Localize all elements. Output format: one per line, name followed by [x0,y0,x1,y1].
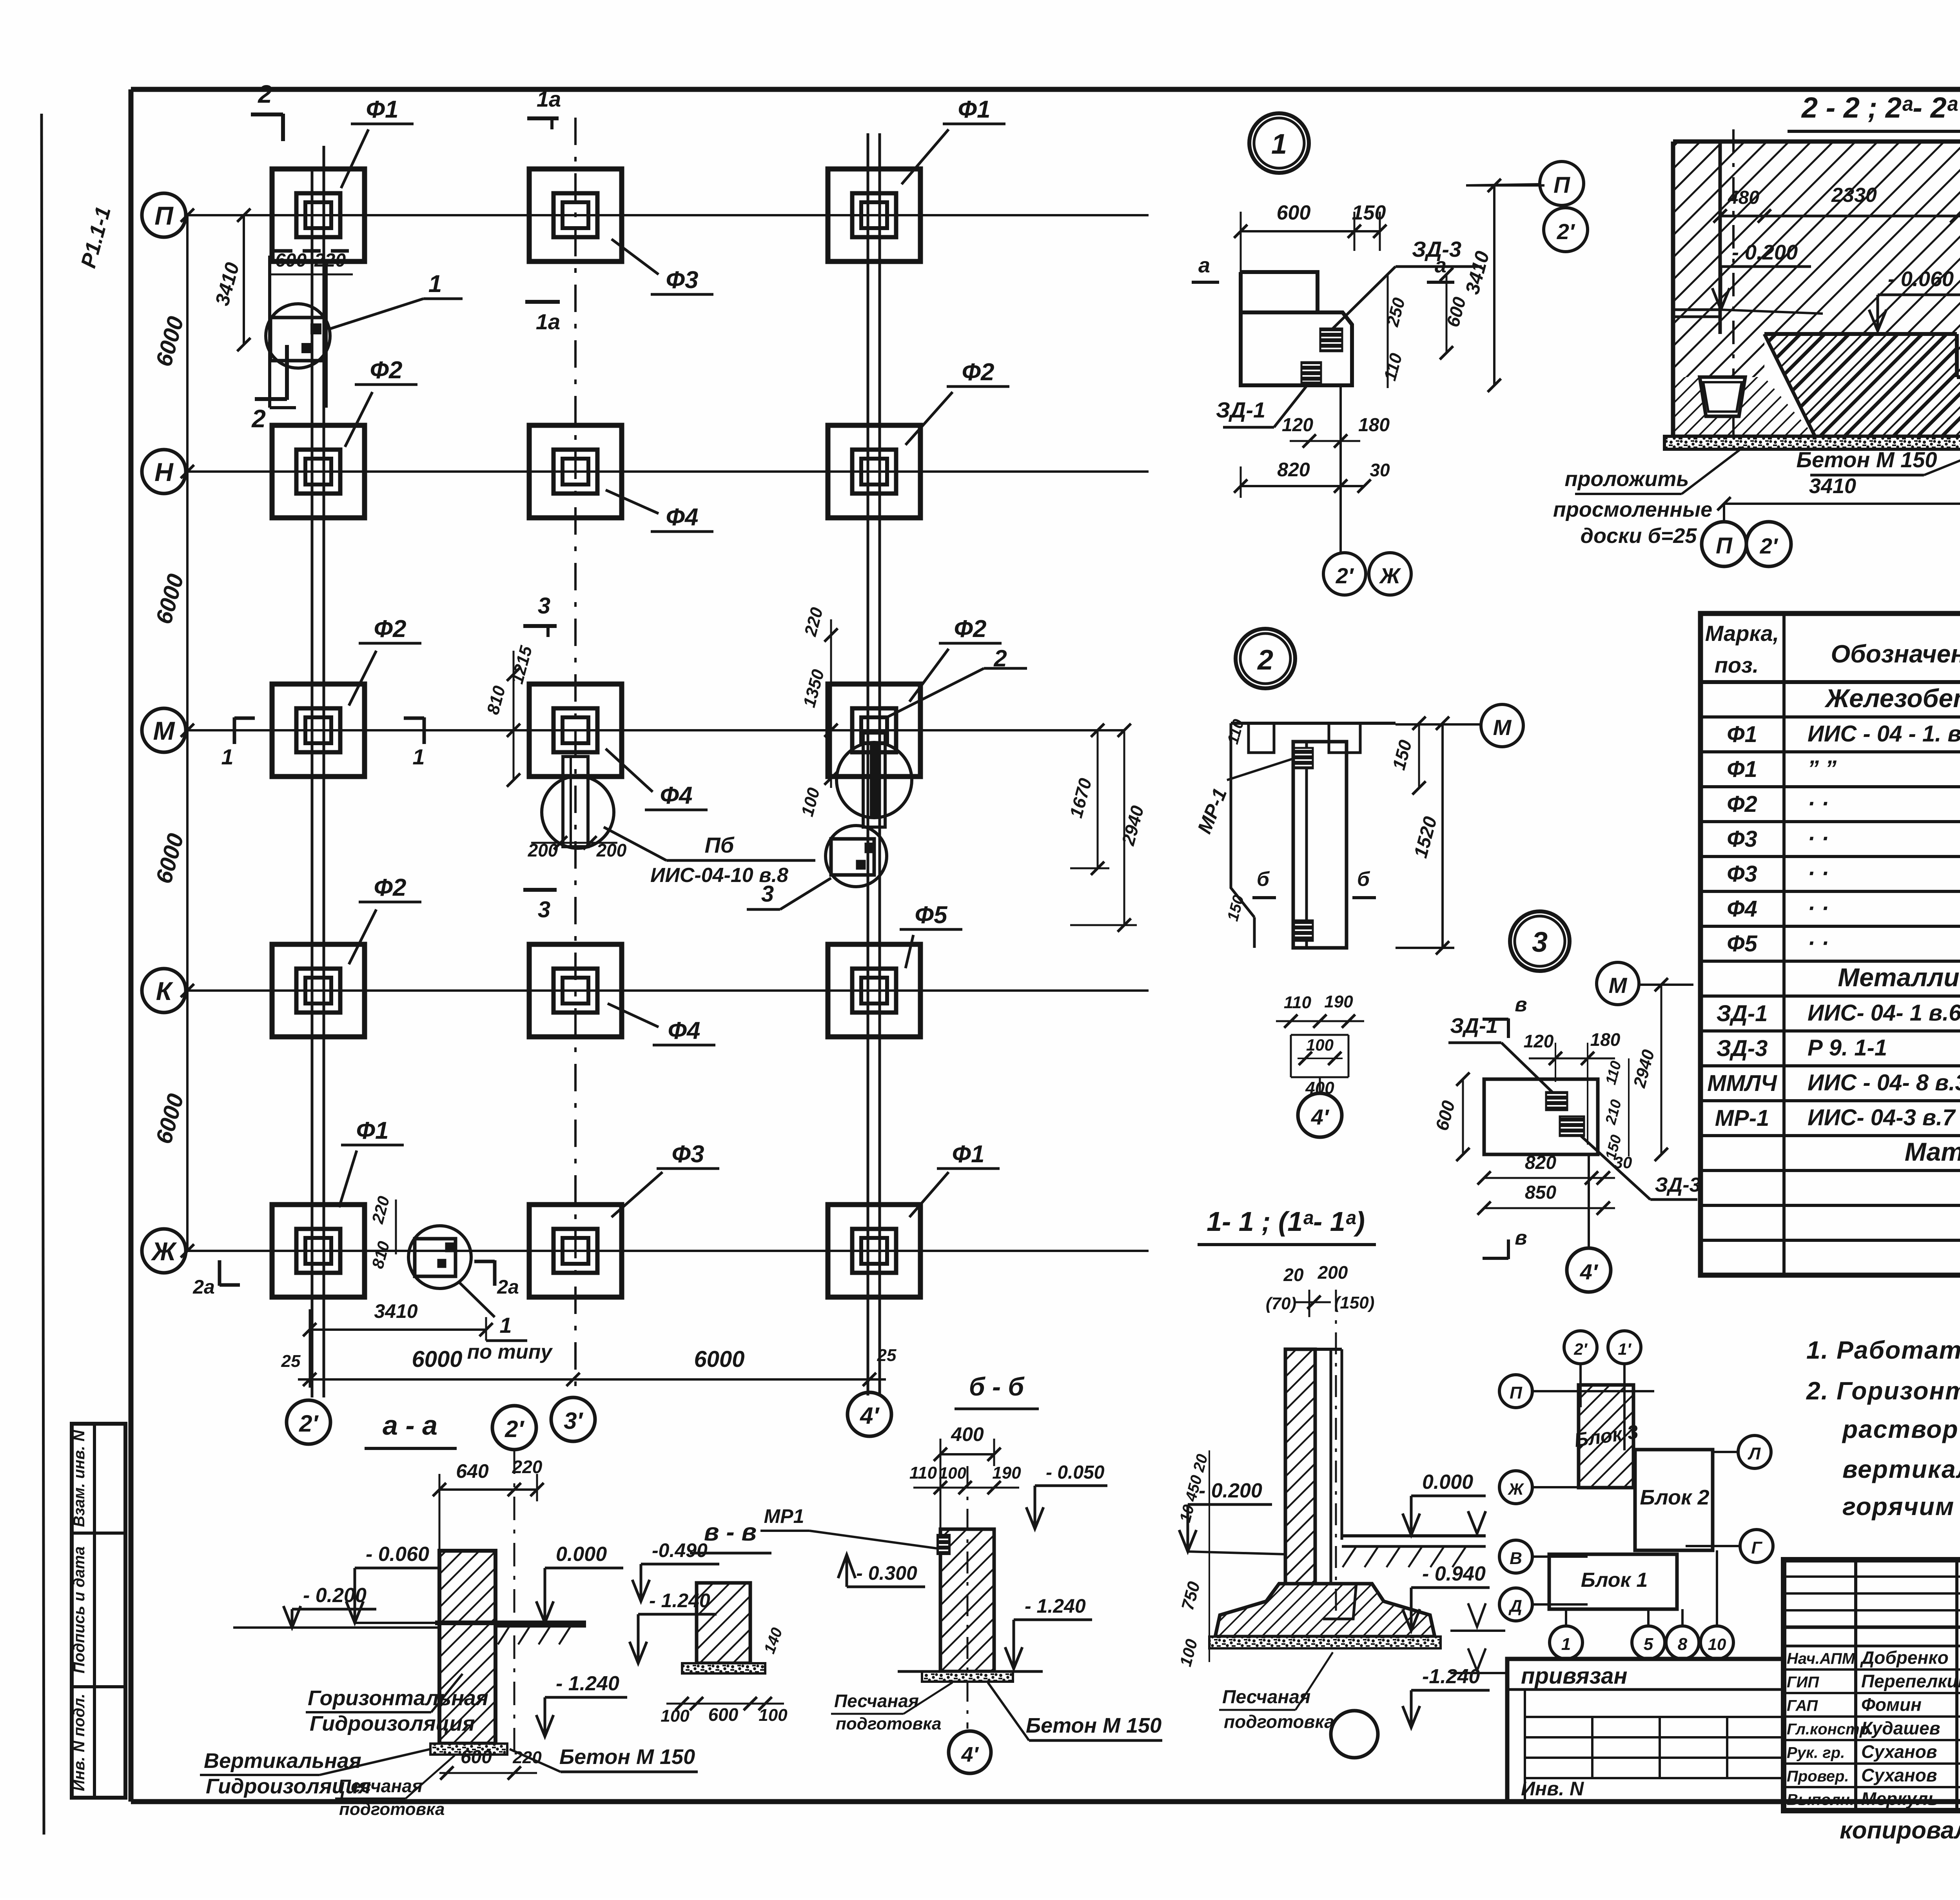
svg-text:Ф1: Ф1 [952,1141,985,1168]
detail 2 pad МР-1 bottom [1294,920,1313,941]
svg-text:- 0.300: - 0.300 [856,1562,917,1584]
section mark 2а left [218,1260,221,1286]
svg-text:10: 10 [1708,1635,1726,1653]
svg-text:3: 3 [538,897,550,922]
svg-text:- 0.200: - 0.200 [303,1584,367,1607]
leader ЗД-3 [1333,267,1396,328]
detail circle big on М-4' [837,742,912,818]
svg-text:0.000: 0.000 [1422,1471,1473,1494]
1-1 glass pocket [1319,1584,1356,1619]
axis row line Н [185,470,1149,473]
svg-text:поз.: поз. [1715,653,1759,677]
detail 1 dim 600 right [1446,274,1448,353]
footing Ф at row Ж col 2' [272,1205,365,1297]
svg-text:Кудашев: Кудашев [1861,1718,1940,1738]
svg-text:ИИС - 04- 8 в.3: ИИС - 04- 8 в.3 [1808,1070,1960,1095]
svg-text:4′: 4′ [860,1403,880,1429]
svg-text:1- 1 ; (1ᵃ- 1ᵃ): 1- 1 ; (1ᵃ- 1ᵃ) [1207,1206,1365,1237]
svg-text:Л: Л [1748,1444,1761,1463]
svg-text:8: 8 [1678,1635,1688,1654]
scheme axis 10 bottom [1700,1626,1733,1659]
rotated dims 220 1350 100 left of М-4' [830,619,832,788]
svg-text:1: 1 [221,744,233,769]
label Ф2 row Н col 4' [906,392,953,445]
axis row line М [185,729,1125,731]
detail 3 axis circle М [1597,962,1639,1005]
svg-text:Ф4: Ф4 [666,504,699,531]
label Ф1 row П col 4' [902,129,949,184]
svg-text:2: 2 [1257,644,1273,676]
svg-text:6000: 6000 [694,1347,744,1372]
label Ф3 row Ж col 3' [612,1172,662,1217]
svg-text:б: б [1357,868,1370,891]
section mark 3 upper [546,625,550,637]
svg-text:ИИС - 04 - 1. в.6: ИИС - 04 - 1. в.6 [1808,721,1960,746]
level -1.240 1-1 [1411,1689,1490,1692]
level -0.060 а-а [355,1567,439,1570]
svg-text:Инв. N: Инв. N [1521,1778,1584,1800]
svg-text:2 - 2 ; 2ᵃ- 2ᵃ: 2 - 2 ; 2ᵃ- 2ᵃ [1801,91,1958,124]
svg-text:Ф1: Ф1 [958,96,991,123]
parts table frame [1700,613,1960,1275]
svg-text:Перепелкин: Перепелкин [1861,1671,1960,1691]
circles П 2' below 2-2 [1723,504,1725,522]
label Ф1 row Ж col 4' [909,1172,949,1217]
svg-text:П: П [1716,533,1733,559]
detail 2 axis line to М circle [1396,723,1480,726]
label Ф2 row К col 2' [349,909,376,964]
svg-text:В: В [1510,1549,1522,1568]
svg-text:П: П [1510,1383,1523,1403]
section 2-2 break joint left [1673,309,1720,311]
б-б column hatched [940,1529,994,1671]
svg-text:Н: Н [154,457,174,486]
footing Ф at row Ж col 4' [828,1205,920,1297]
label Ф1 row П col 2' [341,129,368,188]
scheme axis В [1499,1540,1532,1573]
level -0.200 а-а [292,1608,376,1611]
detail 3 leader ЗД-3 [1580,1135,1650,1200]
в-в dims 100 600 100 [666,1703,784,1705]
svg-text:2′: 2′ [1336,563,1354,588]
svg-text:Рук. гр.: Рук. гр. [1787,1744,1845,1762]
svg-text:5: 5 [1644,1635,1653,1654]
svg-text:1: 1 [499,1313,512,1337]
detail 1 section marks а-а [1192,281,1219,284]
svg-text:Обозначение: Обозначение [1831,640,1960,668]
б-б centre line [967,1466,969,1729]
table row empty [1700,1239,1960,1242]
svg-text:Суханов: Суханов [1861,1765,1937,1786]
1-1 bottom circle [1331,1711,1378,1758]
svg-text:Ф2: Ф2 [374,874,407,901]
svg-text:2: 2 [251,405,266,433]
footing Ф at row К col 3' [529,944,622,1037]
axis circle Н [142,450,186,494]
scheme axis 1' top [1608,1331,1641,1364]
footing Ф at row П col 2' [272,169,365,261]
scheme axis Д [1499,1588,1532,1621]
svg-text:Песчаная: Песчаная [834,1691,919,1711]
svg-text:2′: 2′ [1557,219,1575,244]
sheet frame border [131,87,1960,92]
svg-text:-1.240: -1.240 [1422,1665,1480,1688]
svg-text:б - б: б - б [969,1372,1025,1401]
svg-text:доски б=25: доски б=25 [1581,524,1697,548]
svg-text:Выполн.: Выполн. [1787,1791,1854,1809]
svg-text:подготовка: подготовка [836,1714,942,1733]
1-1 centre line [1335,1290,1337,1615]
axis column 3' centre line [574,118,577,1397]
detail 2 dim 1520 right [1441,723,1444,948]
level -0.200 [1721,265,1811,268]
svg-text:820: 820 [1277,459,1310,481]
б-б МР1 pad [938,1535,949,1554]
level -1.240 б-б [1014,1619,1092,1621]
svg-text:640: 640 [456,1460,489,1482]
label Ф4 row К col 3' [608,1004,659,1027]
svg-text:25: 25 [877,1346,897,1365]
svg-text:Вертикальная: Вертикальная [204,1749,361,1773]
section 2-2 foundation body chain-hatched [1764,334,1960,436]
scheme axis 2' top [1564,1331,1597,1364]
dim 220 810 near Ж col2' [395,1200,397,1254]
svg-text:ГИП: ГИП [1787,1674,1819,1691]
scheme axis 8 bottom [1666,1626,1699,1659]
svg-text:600: 600 [708,1704,739,1725]
scheme axis Ж [1499,1471,1532,1504]
level -1.240 в-в [638,1613,717,1616]
section 2-2 dims 480 2330 600 [1720,215,1960,218]
detail 3 dim 600 left [1462,1079,1464,1154]
svg-text:20: 20 [1283,1265,1304,1285]
detail 1 plan outline [1241,272,1352,385]
circle 4' under small detail [1319,1077,1321,1093]
dim 200 200 below beam [531,842,617,844]
svg-text:100: 100 [661,1706,690,1726]
svg-text:180: 180 [1590,1029,1621,1050]
svg-text:Р 9. 1-1: Р 9. 1-1 [1808,1035,1887,1060]
detail 2 top edge line [1231,722,1396,725]
rotated dims 1670 2940 right of М-4' [1097,730,1099,868]
svg-text:-0.490: -0.490 [652,1539,708,1561]
svg-text:подготовка: подготовка [339,1800,445,1819]
svg-text:4′: 4′ [961,1743,979,1766]
detail circle on beam Пб [542,776,614,848]
svg-text:Ф3: Ф3 [1727,861,1757,887]
bottom axis circle 3' [551,1397,595,1441]
detail 2 bubble [1236,629,1295,688]
svg-text:ЗД-1: ЗД-1 [1717,1001,1768,1026]
dim 3410 below 2-2 [1724,503,1960,505]
svg-text:Ж: Ж [151,1237,177,1266]
svg-text:ЗД-3: ЗД-3 [1717,1036,1768,1061]
svg-text:200: 200 [528,840,558,860]
а-а sand strip [430,1744,507,1755]
svg-text:0.000: 0.000 [556,1543,607,1566]
svg-text:· ·: · · [1808,860,1829,886]
svg-text:Ф2: Ф2 [962,359,995,386]
svg-text:проложить: проложить [1565,467,1689,491]
svg-text:Фомин: Фомин [1861,1695,1922,1715]
section 2-2 sand prep strip [1664,436,1960,449]
section mark 2а right [493,1260,497,1286]
svg-text:Ф2: Ф2 [374,615,407,642]
svg-text:Ф1: Ф1 [356,1117,389,1144]
scheme axis 1 bottom [1550,1626,1583,1659]
svg-text:- 1.240: - 1.240 [1025,1595,1086,1617]
svg-text:Ф2: Ф2 [370,357,403,384]
svg-text:Суханов: Суханов [1861,1742,1937,1762]
а-а dim 640 220 top [439,1488,537,1491]
svg-text:Железобетонные изделия: Железобетонные изделия [1824,684,1960,713]
svg-text:К: К [156,976,174,1005]
svg-text:600: 600 [1277,201,1311,224]
dim 3410 bottom [310,1328,486,1331]
а-а centre line [514,1450,515,1756]
svg-text:Песчаная: Песчаная [1222,1687,1310,1708]
svg-text:Ф5: Ф5 [915,902,948,929]
svg-text:Ф4: Ф4 [668,1017,701,1044]
section mark 2 top [281,114,285,141]
svg-text:100: 100 [1306,1036,1334,1054]
svg-text:Бетон М 150: Бетон М 150 [1026,1714,1161,1737]
svg-text:в - в: в - в [704,1518,757,1546]
svg-text:раствор состава 1 : 2: раствор состава 1 : 2 δ = 20 ; [1842,1415,1960,1443]
label Ф4 row М col 3' [606,749,653,792]
svg-text:подготовка: подготовка [1224,1711,1334,1732]
svg-text:Инв. N подл.: Инв. N подл. [71,1694,88,1791]
svg-text:горячим битумом за 2 р: горячим битумом за 2 раза. [1842,1492,1960,1521]
detail 3 embedded ЗД-3 [1560,1116,1584,1136]
svg-text:180: 180 [1358,415,1390,436]
svg-text:Ж: Ж [1379,563,1401,588]
svg-text:2′: 2′ [1760,534,1779,558]
section 2-2 lower-left hatched [1673,377,1815,436]
svg-text:3: 3 [538,593,550,619]
1-1 sand strip [1209,1637,1441,1648]
beam Пб below footing М-3' [563,757,588,847]
svg-text:600: 600 [461,1747,492,1768]
section 2-2 footing glass pocket [1700,377,1745,416]
svg-text:3410: 3410 [374,1300,417,1322]
svg-text:- 0.940: - 0.940 [1422,1562,1486,1585]
svg-text:Бетон М 150: Бетон М 150 [1796,447,1937,472]
привязан stamp box [1507,1659,1784,1802]
svg-text:- 0.200: - 0.200 [1199,1479,1262,1502]
footing Ф at row П col 3' [529,169,622,261]
svg-text:Пб: Пб [705,833,735,857]
svg-text:а - а: а - а [383,1410,437,1441]
svg-text:25: 25 [281,1352,301,1371]
axis row line Ж [185,1250,1149,1252]
svg-text:480: 480 [1728,187,1759,208]
node label 3 leader [780,878,831,909]
svg-text:190: 190 [1324,992,1353,1011]
detail 2 pad МР-1 top [1294,748,1313,768]
svg-text:6000: 6000 [412,1347,462,1372]
section 2-2 axis dash line [1732,129,1735,449]
svg-text:1: 1 [428,270,442,298]
left dimension line 6000 chain [186,215,189,1251]
svg-text:М: М [153,716,176,745]
svg-text:1а: 1а [536,309,560,334]
detail 1 dims 110 250 [1387,274,1389,388]
rotated dims 810 1215 left of М-3' [513,651,515,780]
svg-text:100: 100 [939,1464,966,1482]
svg-text:1а: 1а [537,87,561,111]
foundation beam below footing П [268,256,271,408]
level 0.000 а-а [545,1567,623,1570]
1-1 floor slab right [1342,1534,1486,1537]
svg-text:2а: 2а [192,1276,215,1298]
svg-text:· ·: · · [1808,930,1829,956]
level -1.240 а-а [545,1696,627,1699]
svg-text:· ·: · · [1808,826,1829,851]
footing Ф at row Н col 2' [272,425,365,518]
leader ЗД-1 [1274,383,1309,427]
level -0.050 б-б [1035,1484,1107,1487]
svg-text:400: 400 [951,1423,984,1445]
svg-text:Ф3: Ф3 [672,1141,704,1168]
svg-text:2′: 2′ [299,1410,319,1437]
footing Ф at row К col 4' [828,944,920,1037]
detail 1 dim 3410 tall [1493,185,1495,385]
circle 4' under detail 3 [1588,1154,1590,1249]
detail 3 в marks [1507,1018,1510,1038]
footing Ф at row Н col 3' [529,425,622,518]
svg-text:Нач.АПМ: Нач.АПМ [1787,1650,1856,1668]
svg-text:ЗД-1: ЗД-1 [1216,397,1265,422]
detail 3 plan rect [1484,1079,1598,1154]
footing Ф at row М col 4' [828,684,920,777]
svg-text:в: в [1515,1227,1527,1249]
svg-text:1: 1 [1271,129,1287,160]
level 0.000 1-1 [1411,1495,1486,1497]
svg-text:- 1.240: - 1.240 [556,1672,619,1695]
axis circle М [142,708,186,752]
svg-text:120: 120 [1524,1031,1554,1051]
svg-text:Провер.: Провер. [1787,1768,1849,1785]
title block verticals left part [1854,1560,1857,1811]
svg-text:- 1.240: - 1.240 [649,1590,710,1611]
svg-text:4′: 4′ [1311,1105,1330,1129]
detail 3 embedded ЗД-1 [1546,1092,1567,1110]
svg-text:- 0.200: - 0.200 [1732,241,1798,264]
svg-text:Взам. инв. N: Взам. инв. N [71,1430,88,1527]
block scheme Блок 3 hatched [1579,1385,1633,1488]
svg-text:820: 820 [1525,1152,1556,1173]
section mark 1 left of М [233,717,236,744]
svg-text:по типу: по типу [467,1341,554,1363]
scheme axis 5 bottom [1632,1626,1665,1659]
axis circles П 2' for section 2-2 [1540,162,1584,205]
footing Ф at row М col 2' [272,684,365,777]
detail circle node 1 по типу at Ж [408,1226,471,1288]
section mark 1а mid [525,300,560,304]
title block frame [1784,1560,1960,1811]
svg-text:Ф4: Ф4 [660,782,693,809]
axis circle К [142,969,186,1013]
svg-text:привязан: привязан [1521,1663,1628,1689]
embedded part ЗД-3 hatched [1320,328,1342,351]
svg-text:2′: 2′ [505,1416,524,1442]
svg-text:а: а [1198,254,1210,277]
в-в base strip [682,1663,765,1673]
detail 3 bubble [1510,911,1570,971]
bottom axis circle 4' [848,1392,891,1436]
svg-text:- 0.050: - 0.050 [1046,1462,1105,1483]
svg-text:Ф5: Ф5 [1727,931,1757,956]
svg-text:220: 220 [314,250,346,271]
svg-text:ММЛЧ: ММЛЧ [1707,1071,1777,1096]
axis row line К [185,989,1149,992]
section 2-2 wall inner vertical [1719,142,1722,334]
svg-text:110: 110 [909,1463,937,1483]
svg-text:ИИС- 04-3 в.7 ч.2: ИИС- 04-3 в.7 ч.2 [1808,1105,1960,1130]
svg-text:б: б [1257,868,1270,891]
detail 3 leader ЗД-1 [1501,1043,1552,1092]
svg-text:4′: 4′ [1580,1259,1599,1284]
svg-text:просмоленные: просмоленные [1553,498,1712,521]
svg-text:Горизонтальная: Горизонтальная [308,1686,488,1710]
detail 1 dims 600 150 [1241,230,1380,232]
detail 1 dims 820 30 [1241,485,1364,487]
detail 3 dims 120 180 [1529,1058,1615,1060]
svg-text:3: 3 [1532,927,1548,958]
section mark 1а top [550,118,554,129]
svg-text:Ф4: Ф4 [1727,896,1757,922]
svg-text:Гл.констр.: Гл.констр. [1787,1721,1873,1738]
svg-text:М: М [1609,973,1628,998]
axis circle 2prime above а-а [492,1406,536,1450]
1-1 column hatched [1285,1349,1315,1584]
svg-text:Песчаная: Песчаная [338,1776,423,1796]
svg-text:- 0.060: - 0.060 [1888,267,1954,291]
bottom dimension line 6000+6000 [298,1378,886,1381]
svg-text:Блок 2: Блок 2 [1640,1486,1709,1509]
section mark 2 bottom [285,345,289,400]
section 2-2 upper wall hatched [1673,142,1960,377]
svg-text:Блок 1: Блок 1 [1581,1569,1648,1591]
svg-text:в: в [1515,993,1527,1016]
svg-text:ГАП: ГАП [1787,1697,1818,1715]
label Ф4 row Н col 3' [606,490,659,514]
block scheme Блок 1 [1549,1554,1677,1609]
leader Пб ИИС-04-10 в.8 [604,827,666,860]
svg-text:” ”: ” ” [1808,756,1837,781]
б-б dim 400 [940,1453,994,1455]
label Ф2 row М col 4' [909,649,949,702]
svg-text:2: 2 [258,80,272,108]
svg-text:3: 3 [761,881,774,907]
detail circle small node 3 [826,826,887,887]
footing Ф at row М col 3' [529,684,622,777]
svg-text:1: 1 [1561,1635,1571,1654]
detail 2 б section marks [1252,896,1276,899]
detail 1 axis circles 2' Ж [1339,385,1342,553]
small detail square with dims [1291,1034,1348,1036]
label Ф5 row К col 4' [906,935,913,968]
svg-text:Ф3: Ф3 [666,267,699,294]
svg-text:Д: Д [1508,1597,1522,1616]
svg-text:вертикальная гидроизоляци: вертикальная гидроизоляция - обмазка [1842,1455,1960,1483]
level -0.200 1-1 [1188,1503,1272,1506]
circle 4' б-б [949,1731,991,1773]
svg-text:Ж: Ж [1508,1480,1524,1498]
label Ф3 row П col 3' [612,239,659,274]
svg-text:МР1: МР1 [764,1505,804,1527]
